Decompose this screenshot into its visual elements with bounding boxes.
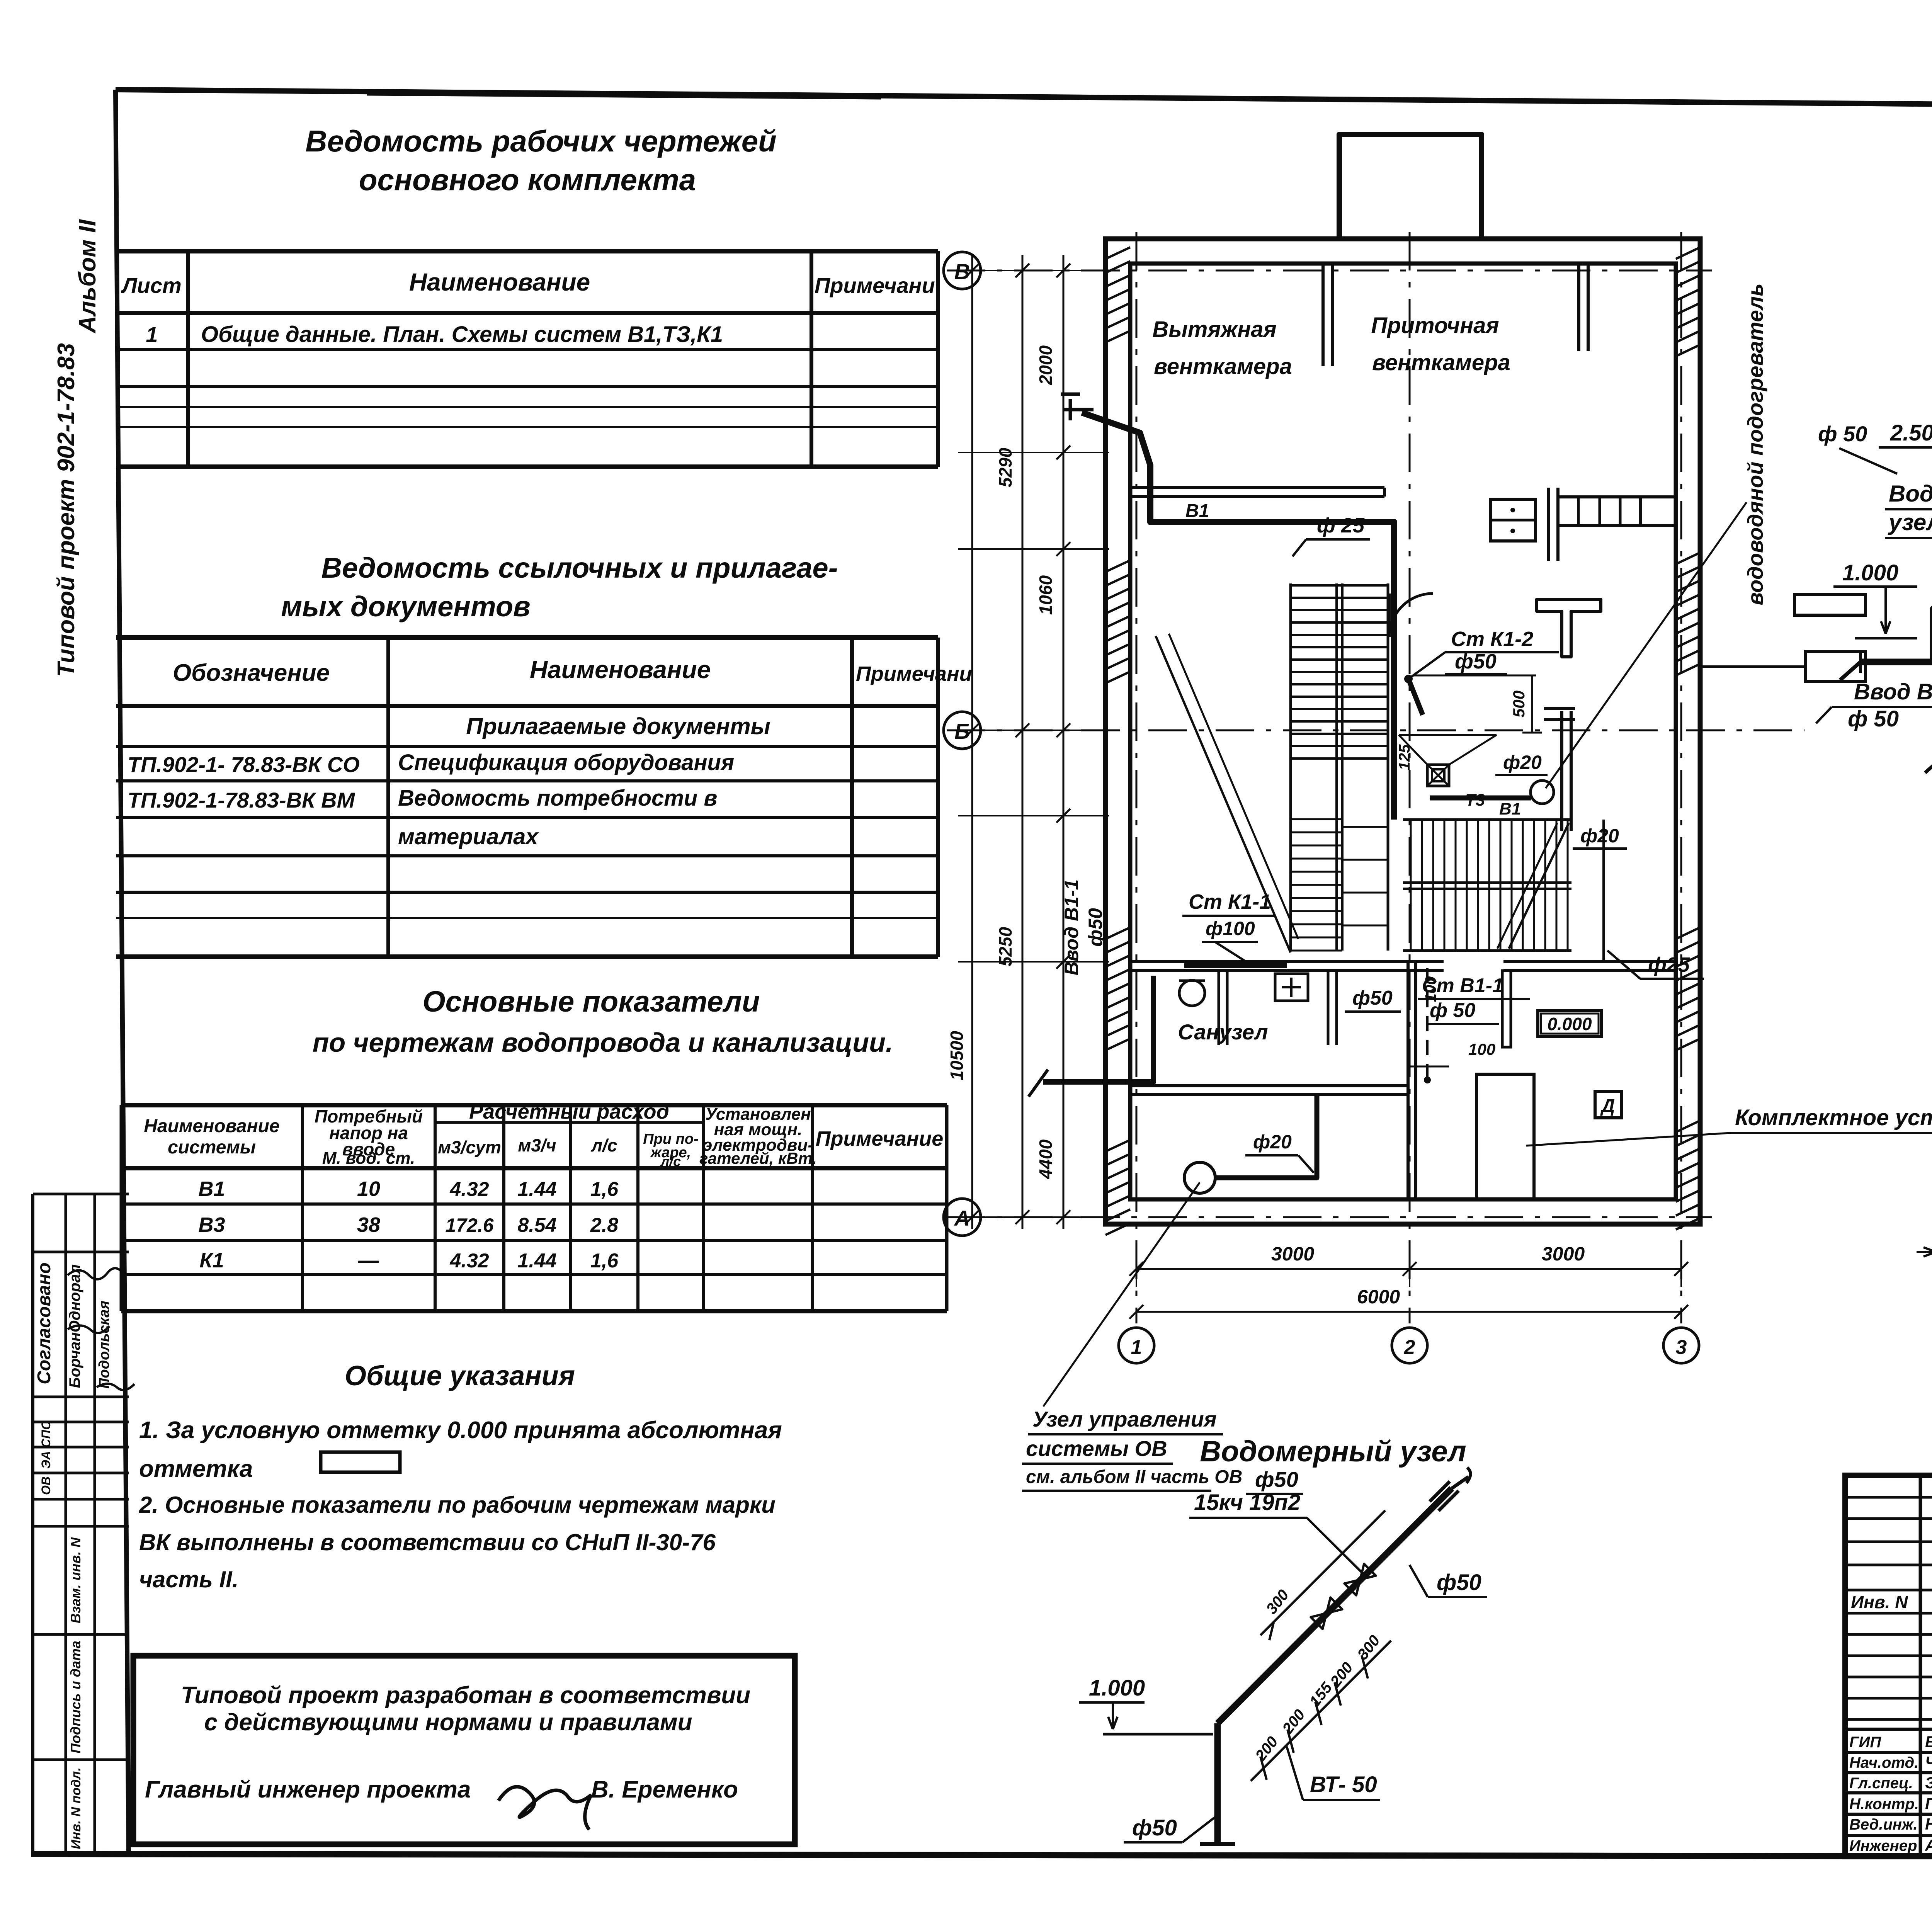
svg-text:Альбом II: Альбом II bbox=[74, 219, 101, 334]
svg-text:Инженер: Инженер bbox=[1849, 1837, 1917, 1854]
lower stair diagonals bbox=[1509, 823, 1569, 949]
dim extension lines bbox=[958, 270, 1109, 271]
svg-text:Прилагаемые документы: Прилагаемые документы bbox=[466, 713, 770, 739]
leader from vodopodogrevatel bbox=[1546, 502, 1747, 788]
toilet room east wall bbox=[1560, 711, 1563, 831]
svg-text:Обозначение: Обозначение bbox=[173, 660, 330, 686]
svg-text:ТП.902-1- 78.83-ВК СО: ТП.902-1- 78.83-ВК СО bbox=[128, 752, 360, 777]
svg-text:Д: Д bbox=[1600, 1096, 1615, 1116]
svg-text:м3/сут: м3/сут bbox=[438, 1137, 501, 1157]
svg-text:основного комплекта: основного комплекта bbox=[359, 163, 696, 197]
svg-text:В1: В1 bbox=[198, 1177, 225, 1201]
pipe f20 lower room bbox=[1215, 1095, 1317, 1178]
svg-text:Апханова: Апханова bbox=[1925, 1836, 1932, 1854]
pipe after water meter bbox=[1861, 591, 1932, 662]
wall stub right of corridor bbox=[1547, 488, 1550, 561]
title block left grid rows bbox=[1845, 1496, 1932, 1499]
svg-text:ОВ: ОВ bbox=[39, 1476, 53, 1495]
margin signature scribbles bbox=[68, 1268, 124, 1279]
svg-text:1. За условную отметку 0.: 1. За условную отметку 0.000 принята абс… bbox=[139, 1417, 782, 1444]
svg-text:Гл.спец.: Гл.спец. bbox=[1849, 1775, 1913, 1792]
svg-text:2.500: 2.500 bbox=[1890, 420, 1932, 446]
sanuzel right wall bbox=[1406, 962, 1410, 1199]
detail valves on diagonal bbox=[1344, 1564, 1376, 1595]
svg-text:Ст К1-1: Ст К1-1 bbox=[1189, 890, 1271, 913]
plan axis circle V bbox=[944, 252, 981, 289]
detail pipe bottom vertical bbox=[1214, 1723, 1221, 1843]
svg-text:Златников: Златников bbox=[1925, 1774, 1932, 1792]
svg-text:Взам. инв. N: Взам. инв. N bbox=[68, 1537, 83, 1624]
svg-text:Т3: Т3 bbox=[1465, 791, 1485, 810]
svg-text:ВК выполнены в соответств: ВК выполнены в соответствии со СНиП II-3… bbox=[139, 1529, 716, 1555]
plan axis line B horizontal bbox=[947, 730, 1804, 731]
svg-text:Санузел: Санузел bbox=[1178, 1020, 1268, 1044]
table A grid bbox=[116, 249, 938, 253]
washbasin bbox=[1275, 974, 1308, 1001]
svg-text:1,6: 1,6 bbox=[590, 1178, 619, 1201]
svg-text:ТП.902-1-78.83-ВК ВМ: ТП.902-1-78.83-ВК ВМ bbox=[128, 788, 355, 812]
svg-text:Н.контр.: Н.контр. bbox=[1849, 1796, 1919, 1813]
frame left border bbox=[116, 90, 129, 1855]
svg-text:500: 500 bbox=[1510, 690, 1528, 718]
svg-text:В: В bbox=[954, 259, 970, 284]
svg-text:Нач.отд.: Нач.отд. bbox=[1849, 1754, 1918, 1771]
svg-text:15кч 19п2: 15кч 19п2 bbox=[1194, 1490, 1300, 1515]
equipment zero mark box bbox=[1538, 1010, 1602, 1037]
svg-text:ф20: ф20 bbox=[1253, 1131, 1292, 1153]
svg-text:Борчан: Борчан bbox=[66, 1332, 83, 1388]
svg-text:ВТ- 50: ВТ- 50 bbox=[1310, 1772, 1377, 1797]
svg-text:с действующими нормами и п: с действующими нормами и правилами bbox=[204, 1709, 692, 1736]
svg-text:Нарижная: Нарижная bbox=[1925, 1815, 1932, 1833]
entry pipe vvod V1-1 bbox=[1043, 976, 1153, 1082]
svg-text:3000: 3000 bbox=[1271, 1243, 1314, 1265]
svg-text:Ввод В1- 1: Ввод В1- 1 bbox=[1854, 679, 1932, 704]
svg-text:часть II.: часть II. bbox=[139, 1566, 238, 1592]
svg-text:Расчетный расход: Расчетный расход bbox=[469, 1100, 669, 1123]
corridor wall under vent chambers bbox=[1130, 486, 1384, 489]
vent chamber partition wall left bbox=[1321, 264, 1325, 366]
svg-text:1: 1 bbox=[146, 322, 158, 347]
title block verticals left grid bbox=[1919, 1475, 1922, 1857]
svg-text:ГИП: ГИП bbox=[1849, 1734, 1881, 1751]
svg-text:ф 50: ф 50 bbox=[1430, 999, 1475, 1022]
svg-text:172.6: 172.6 bbox=[445, 1214, 494, 1236]
plan axis line V horizontal bbox=[947, 270, 1712, 272]
svg-text:А: А bbox=[954, 1206, 970, 1230]
svg-text:Главный инженер проекта: Главный инженер проекта bbox=[145, 1776, 471, 1803]
svg-text:отметка: отметка bbox=[139, 1456, 253, 1482]
svg-text:Наименование: Наименование bbox=[409, 268, 590, 296]
svg-text:1060: 1060 bbox=[1036, 575, 1056, 615]
svg-text:Спецификация оборудования: Спецификация оборудования bbox=[398, 750, 734, 775]
svg-text:м3/ч: м3/ч bbox=[518, 1135, 556, 1155]
dashed stack StV1-1 on plan bbox=[1426, 968, 1429, 1080]
svg-text:1.000: 1.000 bbox=[1089, 1675, 1145, 1701]
outdoor tap symbol bbox=[1063, 408, 1094, 412]
roof vent shaft rectangle bbox=[1339, 134, 1481, 240]
svg-text:8.54: 8.54 bbox=[517, 1214, 556, 1236]
corridor south wall segments bbox=[1403, 960, 1444, 963]
svg-text:Примечани: Примечани bbox=[856, 662, 972, 685]
lower room fixture circle bbox=[1184, 1162, 1215, 1193]
svg-text:Ввод В1-1: Ввод В1-1 bbox=[1061, 879, 1082, 976]
uzel upravleniya leader bbox=[1043, 1182, 1200, 1406]
sanuzel top wall bbox=[1130, 960, 1409, 963]
svg-text:ф50: ф50 bbox=[1085, 908, 1106, 947]
svg-text:2: 2 bbox=[1404, 1336, 1415, 1359]
svg-text:Ведомость потребности в: Ведомость потребности в bbox=[398, 786, 717, 811]
detail chain ticks bbox=[1260, 1757, 1267, 1780]
stack K1-2 point and leader bbox=[1404, 675, 1413, 683]
stair landing door arc bbox=[1389, 594, 1433, 637]
pipe V1 f25 from tap bbox=[1082, 413, 1394, 820]
svg-text:Вед.инж.: Вед.инж. bbox=[1849, 1816, 1918, 1833]
plan axis line 3 vertical bbox=[1680, 232, 1682, 1323]
svg-text:см. альбом II часть ОВ: см. альбом II часть ОВ bbox=[1026, 1467, 1242, 1487]
svg-text:венткамера: венткамера bbox=[1372, 350, 1510, 375]
svg-text:6000: 6000 bbox=[1357, 1286, 1400, 1308]
svg-text:Наименование: Наименование bbox=[530, 656, 711, 684]
svg-text:2000: 2000 bbox=[1036, 345, 1056, 385]
svg-text:узел: узел bbox=[1888, 509, 1932, 535]
svg-text:ф 25: ф 25 bbox=[1317, 514, 1365, 537]
svg-text:Ст В1-1: Ст В1-1 bbox=[1422, 975, 1503, 997]
svg-text:В. Еременко: В. Еременко bbox=[591, 1776, 738, 1803]
dim 500 on plan bbox=[1531, 675, 1533, 733]
svg-text:венткамера: венткамера bbox=[1154, 354, 1292, 379]
svg-text:ф100: ф100 bbox=[1206, 918, 1255, 939]
svg-text:материалах: материалах bbox=[398, 824, 539, 849]
svg-text:Примечание: Примечание bbox=[816, 1127, 944, 1150]
svg-text:по чертежам водопровода и: по чертежам водопровода и канализации. bbox=[313, 1027, 893, 1058]
svg-text:100: 100 bbox=[1468, 1040, 1495, 1058]
plan axis line 2 vertical bbox=[1409, 232, 1411, 1323]
svg-text:Еременко: Еременко bbox=[1925, 1733, 1932, 1751]
svg-text:Вытяжная: Вытяжная bbox=[1152, 317, 1276, 342]
svg-text:М. вод. ст.: М. вод. ст. bbox=[322, 1149, 415, 1168]
svg-text:Б: Б bbox=[954, 719, 970, 743]
svg-text:Согласовано: Согласовано bbox=[34, 1262, 54, 1384]
boiler circle on plan bbox=[1531, 781, 1554, 804]
upper staircase bbox=[1289, 583, 1292, 951]
svg-text:Водомерный узел: Водомерный узел bbox=[1200, 1435, 1466, 1468]
table B grid bbox=[116, 635, 938, 640]
svg-text:Типовой проект разработан в: Типовой проект разработан в соответствии bbox=[181, 1682, 750, 1709]
building inner wall bbox=[1130, 264, 1676, 1199]
cabinet with two compartments bbox=[1490, 499, 1536, 541]
svg-text:Общие указания: Общие указания bbox=[345, 1361, 575, 1391]
table C grid bbox=[121, 1103, 947, 1107]
svg-text:Подпись и дата: Подпись и дата bbox=[68, 1641, 83, 1753]
svg-text:2.8: 2.8 bbox=[590, 1214, 618, 1236]
entry arrowhead vvod V1-1 bbox=[1859, 651, 1862, 673]
thin pipe to water heater bbox=[1602, 820, 1605, 962]
statement box bbox=[133, 1656, 795, 1844]
svg-text:В3: В3 bbox=[198, 1213, 225, 1236]
wall pier hatches bbox=[1105, 560, 1130, 572]
svg-text:ф50: ф50 bbox=[1352, 987, 1393, 1009]
svg-text:Лист: Лист bbox=[121, 273, 182, 298]
svg-text:гателей, кВт.: гателей, кВт. bbox=[699, 1149, 817, 1167]
plan letter D box bbox=[1595, 1092, 1621, 1118]
svg-text:1.44: 1.44 bbox=[517, 1178, 556, 1201]
svg-text:ф50: ф50 bbox=[1437, 1570, 1481, 1595]
plan axis circle 2 bbox=[1392, 1328, 1427, 1363]
pipe T3 on plan bbox=[1430, 796, 1531, 801]
svg-text:Инв. N подл.: Инв. N подл. bbox=[69, 1767, 83, 1849]
svg-text:системы ОВ: системы ОВ bbox=[1026, 1436, 1167, 1461]
svg-text:В1: В1 bbox=[1185, 501, 1209, 521]
svg-text:ф50: ф50 bbox=[1132, 1815, 1177, 1840]
svg-text:мых документов: мых документов bbox=[281, 590, 530, 622]
svg-text:0.000: 0.000 bbox=[1547, 1014, 1592, 1034]
svg-text:3: 3 bbox=[1676, 1336, 1687, 1359]
vent chamber partition wall right bbox=[1577, 264, 1580, 351]
toilet stall partitions bbox=[1218, 971, 1220, 1045]
svg-text:ЭА: ЭА bbox=[39, 1451, 53, 1469]
svg-text:Узел управления: Узел управления bbox=[1032, 1407, 1217, 1431]
svg-text:ф20: ф20 bbox=[1580, 825, 1619, 847]
ventilation grille strip bbox=[1558, 497, 1640, 526]
svg-text:1.000: 1.000 bbox=[1842, 560, 1898, 585]
pipe StK1-1 horizontal thick bbox=[1184, 962, 1287, 968]
svg-text:Наименование: Наименование bbox=[144, 1116, 279, 1136]
svg-text:2. Основные показатели по р: 2. Основные показатели по рабочим чертеж… bbox=[139, 1492, 776, 1518]
svg-text:10500: 10500 bbox=[947, 1031, 967, 1080]
detail main diagonal pipe bbox=[1218, 1488, 1452, 1723]
dim chain lines left of plan bbox=[971, 255, 973, 1229]
svg-text:ф20: ф20 bbox=[1503, 752, 1542, 773]
svg-text:Основные показатели: Основные показатели bbox=[423, 985, 760, 1018]
title block outer bbox=[1845, 1475, 1932, 1857]
building outer wall bbox=[1105, 239, 1700, 1224]
svg-text:ф50: ф50 bbox=[1255, 1467, 1298, 1492]
toilet bowl bbox=[1179, 980, 1205, 1006]
svg-text:125: 125 bbox=[1396, 744, 1413, 770]
svg-text:5290: 5290 bbox=[995, 447, 1015, 487]
chief engineer signature bbox=[498, 1787, 591, 1830]
svg-text:л/с: л/с bbox=[660, 1153, 681, 1169]
bottom dim line 3000+3000 bbox=[1136, 1268, 1681, 1270]
svg-text:Общие данные. План. Схемы сист: Общие данные. План. Схемы систем В1,ТЗ,К… bbox=[201, 322, 723, 347]
sanuzel inner partition wall bbox=[1130, 1084, 1408, 1087]
svg-text:Комплектное устройство: Комплектное устройство bbox=[1735, 1105, 1932, 1130]
svg-text:—: — bbox=[358, 1249, 379, 1272]
plan axis circle A bbox=[944, 1199, 981, 1236]
svg-text:Ст К1-2: Ст К1-2 bbox=[1451, 628, 1533, 651]
svg-text:1.44: 1.44 bbox=[517, 1250, 556, 1272]
svg-text:Водомерный: Водомерный bbox=[1889, 481, 1932, 507]
plan axis circle 3 bbox=[1663, 1328, 1699, 1363]
svg-text:ф25: ф25 bbox=[1648, 953, 1690, 976]
svg-text:5250: 5250 bbox=[995, 927, 1015, 966]
svg-text:Голуб: Голуб bbox=[1925, 1794, 1932, 1813]
svg-text:1: 1 bbox=[1131, 1336, 1142, 1359]
detail dim chain diagonal 2 bbox=[1260, 1510, 1385, 1635]
svg-text:водоводяной подогреватель: водоводяной подогреватель bbox=[1743, 283, 1767, 605]
margin stamp strip lines bbox=[33, 1193, 129, 1196]
reference rectangle bbox=[1794, 595, 1866, 615]
svg-text:3000: 3000 bbox=[1542, 1243, 1585, 1265]
plan axis circle 1 bbox=[1119, 1328, 1154, 1363]
svg-text:Примечани: Примечани bbox=[815, 273, 935, 298]
svg-text:В1: В1 bbox=[1499, 799, 1521, 818]
note 1 reference rectangle bbox=[321, 1452, 400, 1472]
svg-text:Приточная: Приточная bbox=[1371, 313, 1499, 338]
svg-text:Инв. N: Инв. N bbox=[1851, 1592, 1908, 1612]
detail dim chain diagonal 1 bbox=[1251, 1641, 1391, 1781]
svg-text:Ведомость ссылочных и прила: Ведомость ссылочных и прилагае- bbox=[321, 552, 838, 584]
svg-text:ф 50: ф 50 bbox=[1818, 422, 1867, 446]
dim ticks bbox=[965, 264, 979, 277]
svg-text:1,6: 1,6 bbox=[590, 1250, 619, 1272]
svg-text:10: 10 bbox=[357, 1177, 380, 1201]
heater rectangle right of plan bbox=[1806, 651, 1866, 682]
svg-text:системы: системы bbox=[168, 1137, 256, 1158]
complect device rectangle bbox=[1476, 1074, 1534, 1199]
plan axis circle B bbox=[944, 712, 981, 749]
frame top border bbox=[116, 90, 1932, 110]
svg-text:4.32: 4.32 bbox=[449, 1250, 489, 1272]
svg-text:Ведомость рабочих чертежей: Ведомость рабочих чертежей bbox=[305, 124, 776, 158]
svg-text:4.32: 4.32 bbox=[449, 1178, 489, 1201]
svg-text:Чмелев: Чмелев bbox=[1925, 1753, 1932, 1771]
stair flight diagonal lines bbox=[1156, 636, 1291, 952]
lower staircase bbox=[1403, 818, 1571, 821]
floor drain T3 bbox=[1427, 765, 1449, 786]
svg-text:4400: 4400 bbox=[1036, 1139, 1056, 1179]
svg-text:СПС: СПС bbox=[39, 1420, 53, 1447]
svg-text:Типовой проект 902-1-78.83: Типовой проект 902-1-78.83 bbox=[53, 343, 80, 677]
plan axis line 1 vertical bbox=[1136, 232, 1138, 1323]
svg-text:К1: К1 bbox=[199, 1249, 224, 1272]
wall pier below corridor bbox=[1502, 971, 1511, 1047]
plan axis line A horizontal bbox=[947, 1216, 1712, 1218]
svg-text:Подольская: Подольская bbox=[96, 1301, 112, 1389]
svg-text:38: 38 bbox=[357, 1213, 380, 1236]
T-shaped wall bbox=[1537, 599, 1601, 657]
svg-text:л/с: л/с bbox=[591, 1135, 617, 1155]
bottom dim line 6000 bbox=[1136, 1311, 1681, 1313]
svg-text:ф 50: ф 50 bbox=[1848, 706, 1899, 731]
detail bottom flange bbox=[1200, 1842, 1235, 1846]
frame bottom border bbox=[31, 1854, 1932, 1857]
detail top end ticks bbox=[1439, 1491, 1459, 1511]
